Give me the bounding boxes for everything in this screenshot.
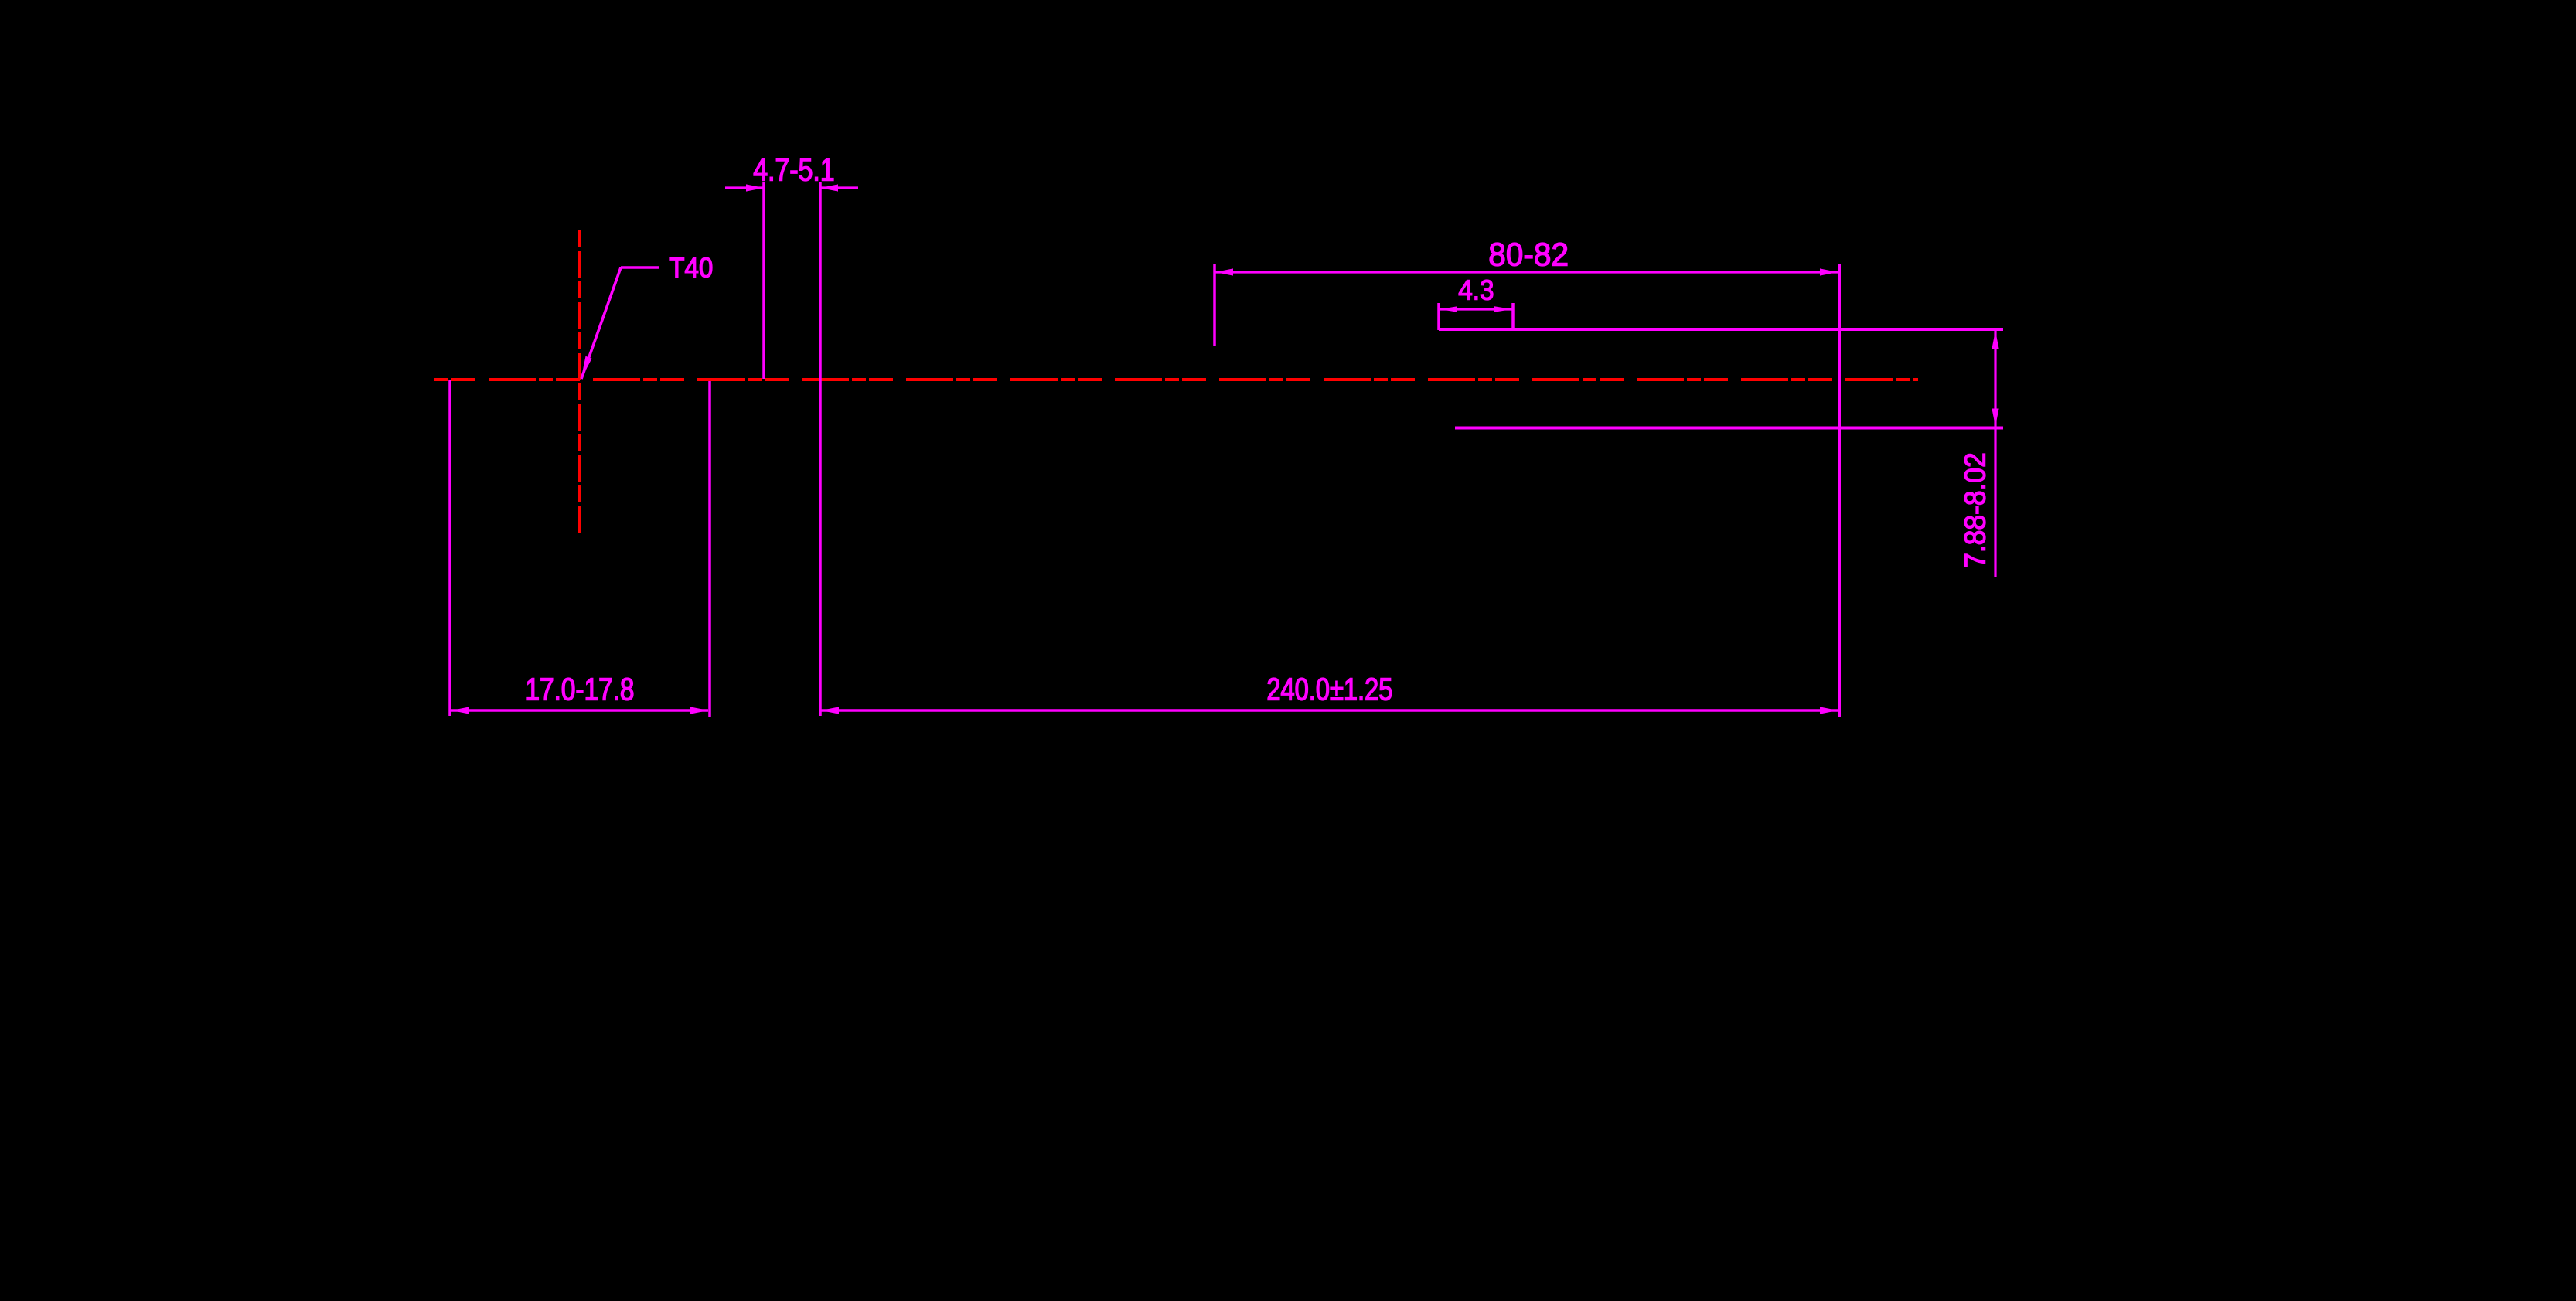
dimension 240.0±1.25 text <box>1268 678 1392 700</box>
dimension 4.7-5.1 line <box>725 186 764 189</box>
dimension 4.3 line <box>1440 308 1512 310</box>
dimension 7.88-8.02 text (rotated) <box>1964 454 1985 567</box>
dimension 80-82 line <box>1215 271 1838 273</box>
dimension 17.0-17.8 line <box>451 709 708 712</box>
dimension 17.0-17.8 text <box>527 678 633 700</box>
dimension 4.3 text <box>1459 280 1493 300</box>
leader T40 <box>621 266 659 269</box>
extension line left of 4.7-5.1 <box>762 182 765 379</box>
feature top line <box>1439 328 2003 331</box>
extension line right of 4.3 <box>1511 303 1515 330</box>
dimension 240.0±1.25 line <box>821 709 1838 712</box>
horizontal centerline (red dash-dot) <box>434 378 1918 381</box>
extension line left of 80-82 <box>1213 264 1216 346</box>
extension line right of 80-82 / 240.0 <box>1838 264 1841 717</box>
vertical centerline (red dash-dot) <box>578 230 581 536</box>
feature bottom line <box>1455 427 2003 430</box>
dimension 7.88-8.02 line (vertical) <box>1994 331 1996 577</box>
extension line left of 17.0-17.8 <box>448 380 451 716</box>
dimension 4.7-5.1 text <box>754 158 833 181</box>
extension line right of 4.7-5.1 / left of 240.0 <box>819 182 822 716</box>
label T40 <box>670 257 712 278</box>
extension line right of 17.0-17.8 <box>708 381 711 717</box>
extension line left of 4.3 <box>1437 303 1440 330</box>
dimension 80-82 text <box>1490 243 1567 266</box>
